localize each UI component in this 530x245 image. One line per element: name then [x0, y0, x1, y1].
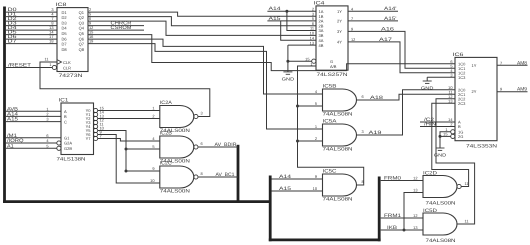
svg-text:IC2B: IC2B	[160, 130, 172, 136]
op IC6 1G inversion bubble	[451, 130, 455, 134]
svg-text:74LS353N: 74LS353N	[466, 144, 498, 150]
op IC4 74LS257N quad 2-input mux body	[316, 6, 348, 70]
op IC1 G2A inversion bubble	[57, 141, 61, 145]
svg-text:A/B: A/B	[330, 64, 337, 69]
wire bus bus vertical x270	[269, 176, 272, 242]
svg-text:IC5D: IC5D	[423, 208, 438, 214]
wire net /C2 stub to IC6 A pin 14	[420, 121, 455, 123]
svg-text:Q5: Q5	[79, 31, 85, 36]
node junction junction Y5 net at IC2C pin 9	[125, 170, 128, 173]
svg-text:13: 13	[310, 40, 314, 45]
svg-text:3: 3	[201, 111, 203, 116]
svg-text:D1: D1	[62, 10, 68, 15]
svg-text:1C3: 1C3	[458, 75, 466, 80]
svg-text:IC5A: IC5A	[323, 118, 338, 124]
ground symbol below IC6	[436, 148, 445, 150]
svg-text:13: 13	[413, 225, 417, 230]
svg-text:6: 6	[201, 141, 203, 146]
wire data input D4 from bus to IC8 pin 13	[6, 29, 57, 31]
op IC8 74273N octal D flip-flop body	[57, 8, 88, 72]
wire net A16 from IC4 3Y pin 9 to IC6 1C1 pin 5	[348, 31, 455, 68]
wire bus bus horizontal y240	[269, 238, 381, 241]
wire bus bus vertical x379	[378, 177, 381, 242]
node junction junction Y5 net branch to IC2B	[125, 148, 128, 151]
op IC1 Y6 inversion bubble	[94, 132, 98, 136]
op IC2C NAND gate	[160, 166, 194, 188]
svg-text:IC4: IC4	[314, 1, 325, 7]
svg-text:74273N: 74273N	[59, 73, 84, 79]
svg-text:12: 12	[351, 37, 355, 42]
svg-text:1: 1	[152, 106, 154, 111]
wire net /RESET from bus to IC8 CLR	[6, 67, 52, 69]
wire net IC4 G pin 15 to ground	[288, 60, 312, 62]
op IC8 clock wedge symbol	[57, 60, 62, 65]
svg-text:2: 2	[315, 136, 317, 141]
svg-text:CSROM: CSROM	[111, 25, 132, 31]
svg-text:4Y: 4Y	[337, 40, 342, 45]
svg-text:Q8: Q8	[79, 47, 85, 52]
op IC6 2G inversion bubble	[451, 134, 455, 138]
svg-text:Q7: Q7	[79, 42, 85, 47]
wire net A1 from bus to IC1 pin 5	[6, 147, 57, 149]
svg-text:FRM0: FRM0	[384, 176, 401, 182]
svg-text:Q2: Q2	[79, 15, 85, 20]
svg-text:A15: A15	[279, 186, 291, 192]
svg-text:IC6: IC6	[453, 52, 464, 58]
wire net Y6 to IC2C input pin 10	[98, 135, 160, 184]
svg-text:2C3: 2C3	[458, 101, 466, 106]
op IC2A NAND gate	[160, 106, 194, 128]
wire net IC6 2G to ground	[440, 135, 451, 137]
wire data input D0 from bus to IC8 pin 3	[6, 11, 57, 13]
op IC5A AND gate	[323, 124, 357, 146]
svg-text:D2: D2	[62, 15, 68, 20]
svg-text:AM9: AM9	[517, 87, 527, 93]
svg-text:Y7: Y7	[86, 136, 92, 141]
wire net Y7 to IC2B input pin 4	[98, 139, 160, 142]
svg-text:/HIN: /HIN	[424, 122, 437, 128]
svg-text:12: 12	[413, 213, 417, 218]
svg-text:2G: 2G	[458, 134, 463, 139]
svg-text:74ALS08N: 74ALS08N	[323, 197, 354, 203]
svg-text:D3: D3	[62, 20, 68, 25]
svg-text:G2B: G2B	[64, 146, 72, 151]
wire data input D3 from bus to IC8 pin 8	[6, 25, 57, 27]
op IC1 Y5 inversion bubble	[94, 128, 98, 132]
wire net A15 from bus to IC5C input pin 10	[272, 190, 323, 192]
svg-text:12: 12	[413, 175, 417, 180]
node junction junction IKB branch	[403, 229, 406, 232]
op IC6 74LS353N dual 4-input mux body	[455, 57, 497, 140]
op IC8 CLR inversion bubble	[52, 65, 56, 69]
wire net A14 from bus to IC5C input pin 9	[272, 178, 323, 180]
svg-text:6: 6	[362, 94, 364, 99]
svg-text:G1: G1	[64, 135, 70, 140]
op IC5D AND gate	[423, 213, 457, 235]
op IC1 Y4 inversion bubble	[94, 124, 98, 128]
wire net A15' stub from IC4 2Y pin 7	[348, 20, 398, 22]
wire net FRM0 from bus to IC2D pin 12	[381, 180, 423, 182]
wire net /M1 from bus to IC1 pin 6	[6, 137, 61, 139]
svg-text:8: 8	[362, 179, 364, 184]
svg-text:A14: A14	[269, 6, 281, 12]
svg-text:/M1: /M1	[7, 133, 17, 139]
op IC2B output bubble	[194, 145, 198, 149]
wire net /HIN stub to IC6 B pin 2	[420, 126, 455, 128]
svg-text:IC5C: IC5C	[323, 168, 338, 174]
svg-text:A1: A1	[7, 143, 14, 149]
wire net IC6 1G to ground	[440, 132, 451, 148]
svg-text:AV_BC1: AV_BC1	[216, 172, 235, 178]
wire net IKB branch to IC2D pin 13	[404, 193, 423, 231]
svg-text:11: 11	[44, 57, 48, 62]
svg-text:2Y: 2Y	[472, 89, 477, 94]
wire net Y5 branch to IC2B input pin 5	[126, 148, 160, 150]
wire net Q3 to IC4 3B pin 10	[88, 21, 316, 35]
op IC5B AND gate	[323, 89, 357, 111]
op IC2B NAND gate	[160, 136, 194, 158]
op IC1 Y0 inversion bubble	[94, 108, 98, 112]
wire net A15 from bus to IC1 pin 3	[6, 121, 61, 123]
svg-text:G2A: G2A	[64, 141, 72, 146]
wire net IC6 1C3 pin 3 to ground	[427, 76, 455, 78]
wire data input D2 from bus to IC8 pin 7	[6, 20, 57, 22]
wire net IC4 4B pin 13 to ground	[288, 44, 316, 46]
svg-text:74ALS08N: 74ALS08N	[426, 238, 457, 244]
wire bus left data/address bus vertical	[3, 7, 6, 204]
svg-text:7: 7	[500, 60, 502, 65]
svg-text:A18: A18	[370, 95, 383, 101]
svg-text:D7: D7	[62, 42, 68, 47]
svg-text:74LS257N: 74LS257N	[317, 72, 349, 78]
wire data input D5 from bus to IC8 pin 14	[6, 34, 57, 36]
wire net A17 from IC4 4Y pin 12 to IC6 1C2 pin 4	[348, 42, 455, 73]
svg-text:IC5B: IC5B	[323, 83, 337, 89]
wire net Q1 to IC4 1B pin 3	[88, 12, 316, 16]
wire net IKB from bus to IC5D pin 13	[381, 229, 423, 231]
wire net A/B branch to IC5B input pin 5	[298, 105, 323, 107]
wire net /IORQ from bus to IC1 pin 4	[6, 142, 57, 144]
wire net AM9 stub from IC6 2Y pin 9	[497, 91, 528, 93]
svg-text:1Y: 1Y	[337, 9, 342, 14]
svg-text:CLK: CLK	[63, 60, 71, 65]
svg-text:/RESET: /RESET	[8, 62, 31, 68]
svg-text:3Y: 3Y	[337, 29, 342, 34]
node junction junction A/B net branch to IC5A	[296, 140, 299, 143]
node junction junction A/B net branch to IC5B	[296, 105, 299, 108]
svg-text:AVB: AVB	[7, 106, 18, 112]
svg-text:IC2A: IC2A	[160, 100, 173, 106]
op IC1 74LS138N 3-to-8 decoder body	[61, 103, 94, 155]
wire net Q6 to IC6 1C0 pin 6	[88, 35, 455, 71]
svg-text:D8: D8	[62, 47, 68, 52]
svg-text:74ALS00N: 74ALS00N	[426, 201, 457, 207]
svg-text:AM8: AM8	[517, 60, 527, 66]
wire wire ground stub at IC6 1C3	[426, 77, 428, 81]
op IC2D output bubble	[457, 184, 461, 188]
svg-text:IKB: IKB	[387, 225, 397, 231]
wire net IC2D output pin 11 to IC6 2C3 pin 13	[432, 103, 469, 186]
op IC2D NAND gate	[423, 176, 457, 198]
svg-text:1Y: 1Y	[472, 63, 477, 68]
wire net A14 stub to IC4 1A pin 2	[267, 10, 316, 12]
svg-text:FRM1: FRM1	[384, 213, 401, 219]
wire wire ground riser at IC4	[287, 45, 289, 72]
wire net A/B branch to IC5A input pin 2	[298, 140, 323, 142]
svg-text:C: C	[64, 119, 67, 124]
svg-text:2: 2	[152, 114, 154, 119]
wire net Y2 to IC2A input pin 2	[98, 118, 160, 120]
svg-text:A16: A16	[381, 26, 394, 32]
svg-text:6: 6	[46, 133, 48, 138]
svg-text:9: 9	[351, 27, 353, 32]
wire net AV_BDIR from IC2B output pin 6 to bus	[198, 146, 238, 148]
svg-text:11: 11	[465, 219, 469, 224]
op IC1 Y1 inversion bubble	[94, 112, 98, 116]
wire net AV_BC1 from IC2C output pin 8 to bus	[198, 176, 238, 178]
svg-text:Q6: Q6	[79, 36, 85, 41]
svg-text:Q1: Q1	[79, 10, 85, 15]
wire net AM8 stub from IC6 1Y pin 7	[497, 64, 528, 66]
wire net Q7 to IC5B input pin 4	[88, 39, 323, 94]
op IC1 G2B inversion bubble	[57, 146, 61, 150]
wire net A15 stub to IC4 2A pin 5	[267, 20, 316, 22]
svg-text:5: 5	[152, 144, 154, 149]
svg-text:A15: A15	[7, 117, 18, 123]
node junction junction IC6 1G/2G ground	[439, 135, 442, 138]
svg-text:8: 8	[201, 171, 203, 176]
wire net FRM1 from bus to IC5D pin 12	[381, 217, 423, 219]
ground symbol near IC6 1C3	[423, 81, 432, 83]
svg-text:15: 15	[443, 132, 447, 137]
wire net IC2A output pin3 to IC8 CLK pin 11	[40, 62, 210, 117]
svg-text:A14: A14	[279, 174, 291, 180]
svg-text:9: 9	[500, 87, 502, 92]
svg-text:/IORQ: /IORQ	[7, 138, 24, 144]
op IC5C AND gate	[323, 174, 357, 196]
wire data input D7 from bus to IC8 pin 18	[6, 43, 57, 45]
wire net Q8 to IC5A input pin 1	[88, 44, 323, 129]
svg-text:IC2D: IC2D	[423, 170, 438, 176]
svg-text:74LS138N: 74LS138N	[57, 157, 87, 163]
svg-text:2Y: 2Y	[337, 19, 342, 24]
svg-text:AV_BDIR: AV_BDIR	[215, 142, 237, 148]
svg-text:A17: A17	[379, 37, 392, 43]
svg-text:74ALS08N: 74ALS08N	[323, 147, 354, 153]
node junction junction IC4 G/4B ground	[286, 60, 289, 63]
svg-text:IC2C: IC2C	[160, 160, 172, 166]
svg-text:D5: D5	[62, 31, 68, 36]
ground symbol near IC4	[283, 72, 292, 74]
op IC2A output bubble	[194, 114, 198, 118]
svg-text:GND: GND	[421, 85, 434, 90]
svg-text:5: 5	[46, 143, 48, 148]
svg-text:15: 15	[305, 56, 309, 61]
op IC4 G enable bubble	[312, 59, 316, 63]
wire net Q2 to IC4 2B pin 6	[88, 17, 316, 26]
node junction junction A14 branch	[285, 10, 288, 13]
wire net A18 from IC5B output pin 6 to IC6 2C1 pin 11	[357, 94, 456, 100]
svg-text:D7: D7	[8, 39, 17, 45]
svg-text:3: 3	[362, 129, 364, 134]
wire net A19 from IC5A output pin 3 to IC6 2C0 pin 10	[357, 90, 456, 135]
svg-text:A14: A14	[7, 112, 18, 118]
svg-text:D4: D4	[62, 26, 68, 31]
svg-text:D6: D6	[62, 36, 68, 41]
svg-text:3: 3	[46, 117, 48, 122]
op IC1 Y7 inversion bubble	[94, 136, 98, 140]
svg-text:9: 9	[315, 174, 317, 179]
op IC1 Y2 inversion bubble	[94, 116, 98, 120]
wire net A14 from bus to IC1 pin 2	[6, 115, 61, 117]
svg-text:18: 18	[49, 39, 53, 44]
svg-text:4B: 4B	[319, 43, 324, 48]
svg-text:Q4: Q4	[79, 26, 85, 31]
wire net A15 branch to IC4 4A pin 14	[281, 21, 316, 40]
wire net A14' stub from IC4 1Y pin 4	[348, 10, 398, 12]
svg-text:GND: GND	[282, 76, 295, 81]
svg-text:CLR: CLR	[63, 65, 71, 70]
wire net Y0 to IC2A input pin 1	[98, 110, 160, 112]
op IC2C output bubble	[194, 175, 198, 179]
svg-text:IC8: IC8	[56, 2, 67, 8]
svg-text:74ALS00N: 74ALS00N	[160, 189, 191, 195]
wire net CSROM stub from IC8 Q5 pin 12	[88, 29, 144, 31]
svg-text:9: 9	[152, 166, 154, 171]
wire net A14 branch to IC4 3A pin 11	[287, 11, 316, 30]
svg-text:5: 5	[315, 101, 317, 106]
wire net Y5 to IC2C input pin 9	[98, 131, 160, 172]
svg-text:1: 1	[49, 62, 51, 67]
svg-text:74ALS08N: 74ALS08N	[323, 112, 354, 118]
wire data input D6 from bus to IC8 pin 17	[6, 38, 57, 40]
svg-text:1: 1	[315, 124, 317, 129]
svg-text:Q3: Q3	[79, 20, 85, 25]
svg-text:A14': A14'	[384, 6, 397, 12]
wire net CHRCR stub from IC8 Q4 pin 9	[88, 25, 144, 27]
svg-text:IC1: IC1	[59, 98, 69, 104]
wire net AVB from bus to IC1 pin 1	[6, 110, 61, 112]
svg-text:13: 13	[413, 187, 417, 192]
svg-text:7: 7	[351, 16, 353, 21]
svg-text:A15: A15	[269, 16, 281, 22]
wire net IC5C output to IC4 A/B select pin 1	[298, 66, 364, 185]
svg-text:B: B	[458, 124, 461, 129]
wire data input D1 from bus to IC8 pin 4	[6, 16, 57, 18]
op IC1 Y3 inversion bubble	[94, 120, 98, 124]
wire net IC5D output pin 11 to IC6 2C2 pin 12	[436, 99, 475, 224]
svg-text:A15': A15'	[384, 16, 397, 22]
wire bus bottom bus horizontal	[3, 200, 272, 203]
svg-text:11: 11	[465, 181, 469, 186]
svg-text:3: 3	[450, 72, 452, 77]
svg-text:A19: A19	[369, 130, 382, 136]
wire bus AV bus vertical x238	[237, 145, 240, 203]
